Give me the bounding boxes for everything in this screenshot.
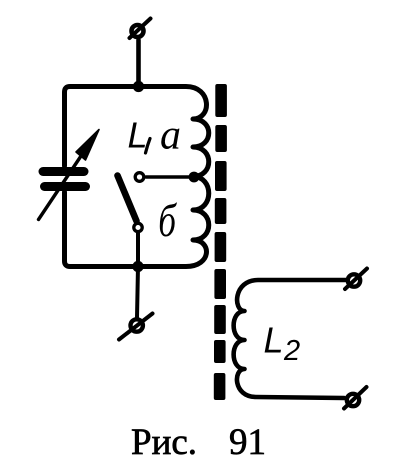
svg-text:a: a — [160, 113, 181, 159]
svg-text:L: L — [264, 320, 284, 361]
wire: coil tap to switch contact a — [146, 175, 193, 179]
switch S1 lever — [118, 176, 137, 222]
terminal T2 (ground, bottom) — [119, 314, 153, 340]
variable capacitor C1: plates — [43, 172, 86, 187]
svg-text:б: б — [158, 194, 177, 246]
node junction on bottom wire — [132, 261, 143, 272]
label b (tap) — [158, 194, 177, 246]
wire: switch pivot down through bottom wire — [136, 233, 140, 267]
variable capacitor C1: adjustment arrow — [39, 130, 100, 220]
label L1 subscript stroke — [146, 139, 151, 154]
terminal T1 (antenna, top) — [130, 19, 151, 39]
inductor L2 with leads — [234, 280, 346, 398]
label L2 — [264, 320, 301, 368]
terminal T3 (L2 top output) — [345, 269, 367, 290]
switch S1 contact a (open circle) — [135, 173, 144, 182]
node junction on top wire — [133, 81, 144, 92]
wire: top terminal to tank loop — [136, 40, 141, 88]
switch S1 pivot contact (open circle) — [134, 223, 142, 231]
tank loop with inductor L1 (right side scalloped coil) — [65, 87, 209, 267]
terminal T4 (L2 bottom output) — [344, 387, 367, 409]
svg-text:L: L — [128, 115, 148, 156]
label L1 subscript-a — [128, 113, 182, 159]
tap node a on coil — [189, 172, 200, 183]
caption — [0, 423, 395, 425]
magnetic screen / core (dashed bar) — [214, 84, 227, 400]
wire: bottom wire to ground terminal — [137, 267, 138, 318]
svg-text:2: 2 — [283, 335, 300, 367]
